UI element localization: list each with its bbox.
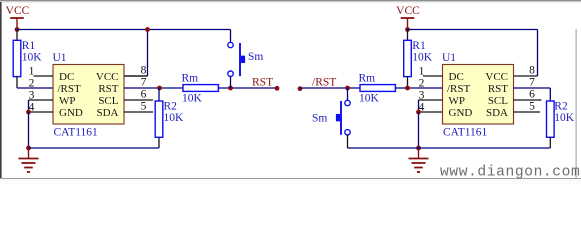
power VCC: [6, 5, 30, 30]
svg-text:8: 8: [529, 64, 535, 76]
svg-text:6: 6: [141, 88, 147, 100]
svg-text:6: 6: [529, 88, 535, 100]
pin 4 stub: [29, 111, 54, 113]
wire GND down to rail: [28, 112, 30, 148]
svg-text:/RST: /RST: [312, 76, 336, 88]
svg-text:SDA: SDA: [486, 107, 508, 119]
wire R1 to /RST net: [407, 77, 409, 88]
pin 8 stub: [124, 75, 148, 77]
svg-text:DC: DC: [449, 71, 464, 83]
svg-text:10K: 10K: [412, 52, 433, 64]
wire bottom rail right: [348, 147, 551, 149]
junction R1 bottom right: [405, 86, 410, 91]
wire rail down to pin8 right: [514, 30, 538, 77]
wire GND down right: [418, 112, 420, 148]
wire down to switch right: [347, 88, 349, 100]
wire R1 to pin2: [17, 77, 53, 88]
svg-text:VCC: VCC: [396, 5, 420, 17]
svg-text:3: 3: [29, 89, 35, 101]
svg-text:RST: RST: [98, 83, 118, 95]
junction ground rail right: [416, 146, 421, 151]
resistor Rm (left): [182, 72, 219, 91]
wire top rail left: [17, 29, 231, 31]
IC U1 CAT1161 body: [53, 65, 124, 125]
svg-text:U1: U1: [53, 52, 67, 64]
junction at VCC left: [15, 27, 20, 32]
resistor R1 (left): [13, 40, 35, 77]
svg-text:/RST: /RST: [447, 83, 471, 95]
pin 3 stub + wire WP-GND: [29, 100, 54, 112]
svg-text:/RST: /RST: [58, 83, 82, 95]
wire VCC to R1 right: [407, 30, 409, 41]
svg-text:1: 1: [419, 65, 425, 77]
svg-text:10K: 10K: [182, 93, 203, 105]
svg-text:www.diangon.com: www.diangon.com: [440, 165, 580, 181]
svg-text:5: 5: [141, 100, 147, 112]
svg-text:Rm: Rm: [359, 72, 376, 84]
junction ground rail: [26, 146, 31, 151]
dangling end RST: [275, 86, 280, 91]
resistor R2 (left): [155, 100, 177, 137]
junction VCC right: [405, 27, 410, 32]
pin 7 stub + wire to R2 right: [514, 88, 551, 101]
svg-text:CAT1161: CAT1161: [54, 127, 99, 139]
svg-text:7: 7: [141, 76, 147, 88]
junction WP/GND right: [416, 110, 421, 115]
IC U1 CAT1161 body: [443, 65, 514, 125]
wire Rm to RST end: [218, 87, 277, 89]
svg-text:SCL: SCL: [98, 95, 118, 107]
svg-text:GND: GND: [449, 107, 473, 119]
dangling end /RST: [298, 86, 303, 91]
svg-text:WP: WP: [59, 95, 76, 107]
svg-text:SCL: SCL: [488, 95, 508, 107]
svg-text:2: 2: [29, 77, 35, 89]
ground: [409, 148, 429, 172]
pin 1 stub right: [423, 75, 443, 77]
svg-text:8: 8: [141, 64, 147, 76]
wire R2 bottom pin: [158, 137, 160, 149]
pin 3 stub + wire WP-GND right: [419, 100, 443, 112]
power VCC: [396, 5, 420, 30]
svg-text:VCC: VCC: [485, 71, 508, 83]
svg-text:RST: RST: [488, 83, 508, 95]
svg-text:3: 3: [419, 89, 425, 101]
pin 1 stub: [34, 75, 54, 77]
switch Sm pushbutton: [228, 42, 245, 76]
resistor R1 (right): [404, 40, 426, 77]
junction switch tap right: [345, 86, 350, 91]
junction WP/GND: [26, 110, 31, 115]
svg-text:10K: 10K: [164, 112, 185, 124]
svg-text:1: 1: [29, 65, 35, 77]
svg-text:RST: RST: [252, 76, 273, 88]
junction pin7/R2: [157, 86, 162, 91]
wire rail down to switch: [230, 30, 232, 43]
ground: [19, 148, 39, 172]
svg-text:DC: DC: [59, 71, 74, 83]
wire VCC to R1: [16, 30, 18, 41]
pin 5 stub: [124, 111, 153, 113]
pin 6 stub right: [514, 99, 542, 101]
resistor R2 (right): [547, 100, 568, 137]
svg-text:10K: 10K: [554, 112, 575, 124]
wire R2 bottom right: [549, 137, 551, 148]
svg-text:U1: U1: [442, 52, 456, 64]
svg-text:10K: 10K: [22, 52, 43, 64]
svg-text:CAT1161: CAT1161: [443, 127, 488, 139]
svg-text:7: 7: [529, 76, 535, 88]
svg-text:10K: 10K: [359, 93, 380, 105]
pin 4 stub right: [419, 111, 443, 113]
pin 7 stub + wire to Rm: [124, 87, 183, 89]
resistor Rm (right): [359, 72, 396, 91]
svg-text:R2: R2: [164, 100, 178, 112]
wire top rail right: [408, 29, 538, 31]
svg-text:VCC: VCC: [6, 5, 30, 17]
svg-text:R1: R1: [22, 40, 36, 52]
wire /RST to pin2: [300, 87, 443, 89]
switch Sm pushbutton: [336, 100, 350, 135]
wire switch to rail right: [347, 135, 349, 148]
svg-text:R2: R2: [554, 100, 568, 112]
wire R2 top: [158, 88, 160, 101]
svg-text:Sm: Sm: [248, 51, 263, 63]
svg-text:GND: GND: [59, 107, 83, 119]
svg-text:VCC: VCC: [96, 71, 119, 83]
svg-text:R1: R1: [412, 40, 426, 52]
svg-text:Sm: Sm: [312, 113, 327, 125]
wire switch to RST wire: [230, 76, 232, 88]
pin 5 stub right: [514, 111, 541, 113]
svg-text:SDA: SDA: [96, 107, 118, 119]
wire rail down to pin8: [124, 30, 148, 77]
junction switch tap: [228, 86, 233, 91]
svg-text:WP: WP: [449, 95, 466, 107]
wire bottom rail left: [29, 147, 160, 149]
pin 6 stub: [124, 99, 153, 101]
junction rail/pin8: [145, 27, 150, 32]
svg-text:5: 5: [529, 100, 535, 112]
svg-text:Rm: Rm: [182, 72, 199, 84]
